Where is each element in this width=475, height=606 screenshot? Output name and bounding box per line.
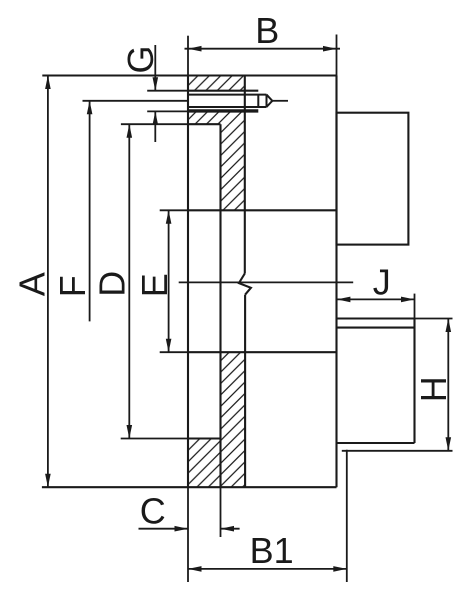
hub right edge lower (244, 295, 246, 488)
screw hole top line (with G extension) (147, 90, 188, 92)
spigot step vertical (B1 extension) (346, 450, 348, 582)
hub right edge upper (244, 76, 246, 274)
dimension B line (185, 48, 341, 50)
hatch counterbore shoulder bottom (188, 439, 221, 488)
hub break zigzag (239, 274, 251, 295)
main centerline (179, 281, 354, 283)
hatch top flange rim (188, 76, 245, 91)
rear register block right edge / J extension (414, 294, 416, 319)
svg-text:F: F (52, 275, 93, 297)
dimension D line (128, 124, 130, 438)
dimension J line (337, 298, 415, 300)
stud thread crest top (188, 94, 267, 96)
dimension E line (168, 210, 170, 352)
dimension F line (89, 101, 91, 322)
dimension G line lower (154, 111, 156, 142)
svg-text:D: D (92, 271, 133, 297)
rear register block bottom (337, 442, 415, 444)
hub left edge / C extension (219, 124, 221, 487)
body bottom edge (with A extension) (42, 486, 337, 488)
svg-text:E: E (134, 273, 175, 297)
chuck body edge line upper (E extension) (160, 209, 188, 211)
screw hole bottom G extension (147, 110, 188, 112)
svg-text:B: B (255, 10, 279, 51)
dimension G line upper (154, 45, 156, 91)
stud centerline tail (272, 100, 288, 102)
dimension B1 line (188, 568, 347, 570)
screw centerline (F extension) (83, 100, 189, 102)
svg-text:C: C (140, 491, 166, 532)
stud thread crest bottom (188, 106, 267, 108)
hatch hub column upper (221, 124, 245, 210)
dimension H line (447, 319, 449, 451)
dimension A line (47, 76, 49, 488)
rear register block top (H extension) (337, 317, 415, 319)
svg-text:J: J (373, 262, 391, 303)
stud chamfer base (266, 95, 268, 107)
body left edge / B C B1 extension line (187, 36, 189, 76)
svg-text:A: A (12, 272, 53, 296)
hatch counterbore shoulder top (188, 111, 245, 124)
stud end face (257, 95, 259, 107)
counterbore face bottom (D extension) (121, 438, 188, 440)
spigot step line (H extension) (342, 450, 453, 452)
svg-text:B1: B1 (250, 530, 294, 571)
body top edge (with A extension) (42, 74, 336, 76)
stud point cone (267, 95, 273, 101)
chuck body edge line lower (E extension) (160, 351, 188, 353)
counterbore face top (D extension) (121, 123, 188, 125)
body right edge / B extension line (336, 35, 338, 76)
dimension C left line (139, 528, 189, 530)
chuck front block outline (337, 113, 409, 245)
rear register block inner line (337, 327, 415, 329)
dimension C right line (221, 528, 240, 530)
hatch hub column lower (221, 352, 245, 487)
svg-text:H: H (413, 376, 454, 402)
screw hole bottom thick line (188, 109, 258, 112)
svg-text:G: G (120, 45, 161, 73)
